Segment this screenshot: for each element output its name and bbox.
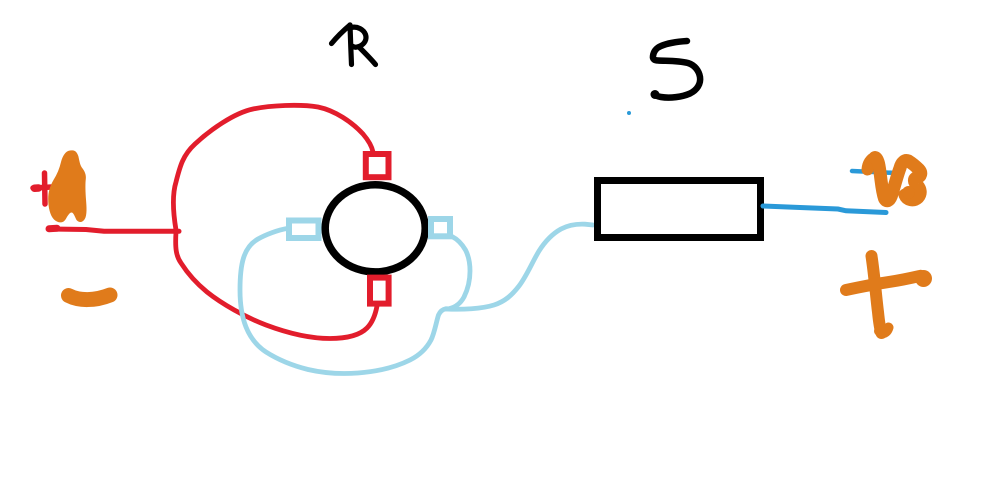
terminal left (light blue square) — [289, 221, 319, 239]
light blue wire (right square drop) — [446, 237, 470, 309]
blue tick through w — [852, 171, 896, 173]
orange w blob filler — [902, 186, 915, 199]
light blue wire to component S — [446, 224, 593, 309]
label R — [332, 25, 376, 65]
component S (black rectangle) — [598, 181, 761, 238]
orange w scribble — [868, 158, 921, 201]
motor M (black circle) — [325, 185, 425, 272]
red wire top loop — [173, 105, 373, 230]
red wire left (battery lead) — [49, 228, 179, 231]
light blue wire loop (left/bottom) — [240, 229, 446, 374]
terminal right (light blue square) — [431, 219, 450, 236]
pen blob at S end — [651, 90, 660, 99]
battery positive marker (red plus) — [33, 173, 52, 204]
orange cross bottom hook — [879, 328, 889, 333]
stray blue dot — [627, 111, 631, 115]
terminal top (red square) — [366, 154, 389, 177]
orange minus marker — [69, 295, 111, 300]
orange cross end blob — [915, 270, 932, 287]
orange electrode blob (plus side) — [48, 150, 86, 222]
orange cross vertical stroke — [872, 256, 882, 333]
red wire bottom loop — [176, 232, 377, 339]
blue wire right of S — [763, 206, 886, 213]
terminal bottom (red square) — [370, 278, 389, 304]
orange cross horizontal stroke — [846, 276, 921, 290]
label S — [653, 41, 700, 98]
